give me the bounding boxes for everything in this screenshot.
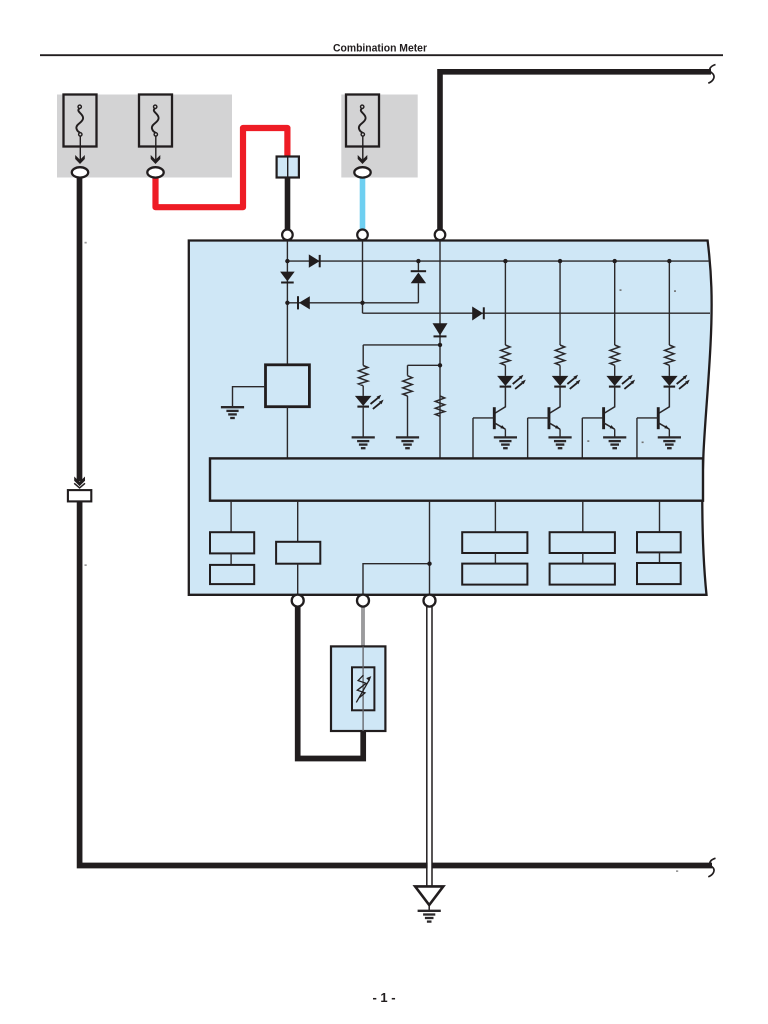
block rect B2 [550, 564, 615, 585]
wire [297, 564, 299, 595]
fuse F3 [346, 95, 379, 178]
node dot [438, 343, 442, 347]
svg-text:Combination Meter: Combination Meter [333, 42, 428, 54]
bus bar [210, 458, 703, 500]
rheostat box [331, 646, 385, 731]
fuse F1 [64, 95, 97, 178]
block rect L1 [210, 532, 254, 553]
double-line wire below pin6 [428, 606, 432, 886]
wire [407, 396, 409, 437]
resistor R2 [403, 376, 412, 396]
wire: light-blue from fuse F3 [360, 178, 366, 230]
rheostat inner box [352, 667, 374, 710]
relay block gray box 2 [341, 95, 417, 178]
terminal pin4 bottom [292, 595, 304, 607]
break squiggle top right [708, 65, 715, 84]
node dot [285, 259, 289, 263]
wire [230, 553, 232, 565]
block rect B1 [550, 532, 615, 553]
terminal pin3 top [435, 230, 446, 241]
resistor R1 [359, 366, 368, 386]
wire: black below connector J1 [285, 178, 291, 230]
wire [230, 501, 232, 533]
terminal pin2 top [357, 230, 368, 241]
wire: red feed from fuse F2 to connector J1 [156, 128, 288, 207]
node dot [438, 363, 442, 367]
ground [418, 911, 441, 922]
inline connector arrow on left wire [74, 477, 85, 487]
LED branch 1 [473, 261, 526, 458]
wire: rail 2 [287, 302, 418, 304]
tiny reference mark [620, 289, 622, 291]
terminal pin1 top [282, 230, 293, 241]
wire: rail 3 [363, 312, 711, 314]
node dot [613, 259, 617, 263]
LED branch 2 [528, 261, 581, 458]
wire: mid LED branch drop [362, 345, 364, 366]
wire: pin6 column [429, 501, 431, 595]
wire: U1 bottom to bus [286, 407, 288, 459]
block rect A2 [462, 564, 527, 585]
fuse F2 [139, 95, 172, 178]
wire [582, 553, 584, 564]
node dot [360, 301, 364, 305]
wire: node link at y=365.3 [408, 364, 441, 366]
wire: pin3 vertical inside block [439, 241, 441, 459]
rheostat symbol [357, 675, 366, 698]
tiny reference mark [85, 242, 87, 244]
wire: node link at y=344.9 [363, 344, 440, 346]
LED LED0 [355, 395, 384, 409]
tiny reference mark [587, 440, 589, 442]
wire: pin1 vertical inside block [286, 241, 288, 365]
node dot [558, 259, 562, 263]
node dot [667, 259, 671, 263]
tiny reference mark [674, 290, 676, 292]
combination meter block body [189, 241, 712, 595]
terminal pin6 bottom [424, 595, 436, 607]
diode D2 down on pin1 [280, 272, 295, 282]
wire: rail 1 [287, 260, 708, 262]
wire [494, 553, 496, 564]
inline connector box on left wire [68, 490, 91, 501]
LED branch 4 [637, 261, 690, 458]
tiny reference mark [642, 442, 644, 444]
resistor R3 on pin3 column [435, 396, 444, 416]
ground [352, 437, 375, 448]
wire: thick black top-right feed [440, 72, 711, 230]
header rule [40, 54, 723, 56]
ground [221, 407, 244, 418]
wire [297, 501, 299, 542]
wire [494, 501, 496, 533]
diode D4 up near node [417, 261, 419, 271]
connector J1 (blue 2-pin) [277, 157, 299, 178]
terminal pin5 bottom [357, 595, 369, 607]
diode D6 down on pin3 [433, 323, 448, 335]
wire: L-link to pin6 [363, 564, 430, 595]
wire [362, 386, 364, 396]
break squiggle bottom right [708, 858, 715, 877]
wire [659, 552, 661, 563]
relay block gray box 1 [57, 95, 232, 178]
ground [396, 437, 419, 448]
wire: thick black loop terminal to rheostat bottom [298, 606, 364, 758]
wire: gray to rheostat [361, 606, 365, 647]
IC U1 [266, 365, 310, 407]
wire: rheostat center line [362, 646, 364, 731]
node dot [503, 259, 507, 263]
wire [582, 501, 584, 533]
svg-text:- 1 -: - 1 - [372, 990, 395, 1005]
wire [362, 407, 364, 438]
block rect C1 [637, 532, 681, 552]
wire: long black left feed from fuse F1 down and across bottom [77, 178, 83, 482]
LED branch 3 [582, 261, 635, 458]
block rect L2 [210, 565, 254, 584]
node dot [416, 259, 420, 263]
diode D1 on rail1 [309, 254, 320, 267]
wire [659, 501, 661, 532]
wire: pin2 vertical inside block [362, 241, 364, 314]
node dot [285, 301, 289, 305]
tiny reference mark [85, 564, 87, 566]
main ground triangle [415, 886, 443, 905]
diode D5 right on rail3 [472, 307, 483, 321]
block rect A1 [462, 532, 527, 553]
node dot [427, 562, 431, 566]
wire: U1 left to ground [233, 387, 266, 408]
block rect C2 [637, 563, 681, 584]
tiny reference mark [676, 870, 678, 872]
block rect M1 [276, 542, 320, 564]
diode D3 left on rail2 [297, 296, 299, 309]
wire: resistor R2 drop [407, 365, 409, 375]
